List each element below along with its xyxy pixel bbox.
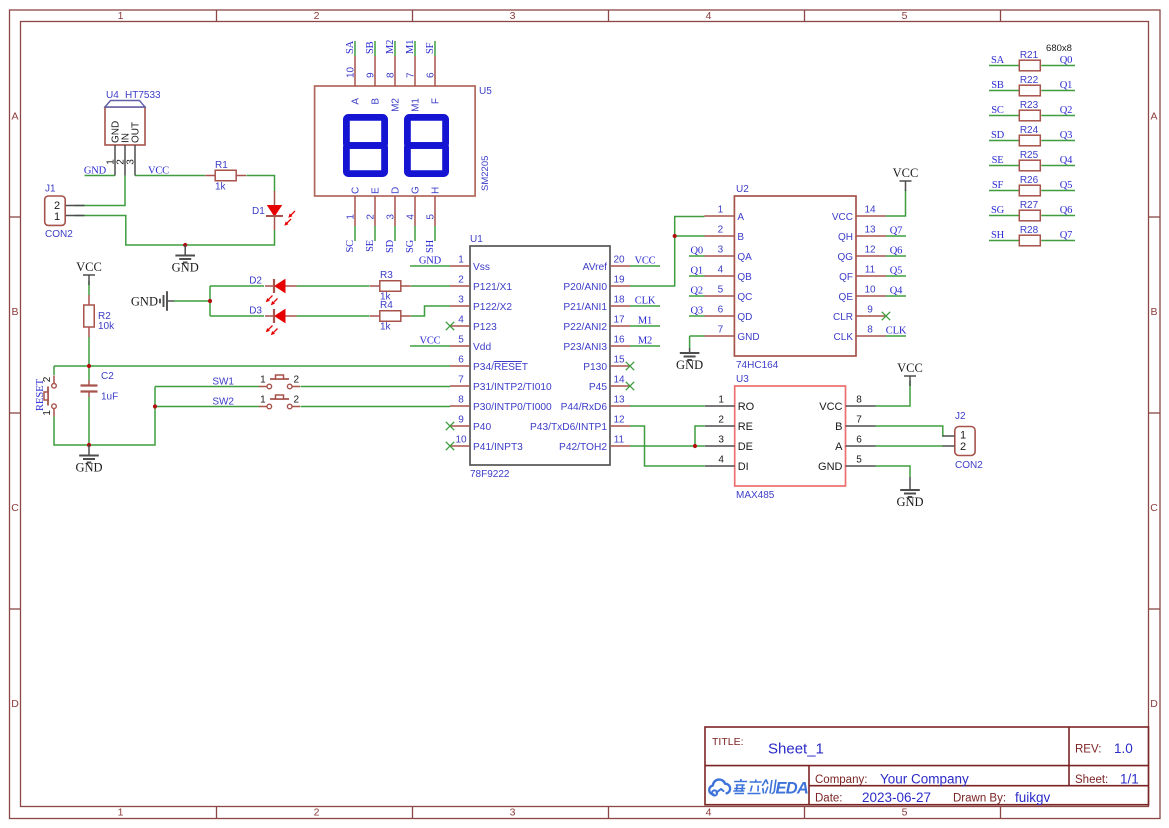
svg-text:CLK: CLK (834, 332, 854, 343)
svg-text:2: 2 (718, 225, 724, 236)
svg-text:SH: SH (991, 230, 1005, 241)
svg-text:Q0: Q0 (691, 246, 703, 257)
svg-text:1: 1 (345, 214, 356, 220)
svg-text:GND: GND (131, 295, 158, 309)
svg-text:SC: SC (991, 105, 1004, 116)
svg-text:E: E (371, 187, 382, 194)
svg-text:U1: U1 (470, 234, 483, 245)
svg-text:HT7533: HT7533 (125, 90, 161, 101)
svg-text:Q6: Q6 (1060, 205, 1072, 216)
svg-text:1: 1 (54, 211, 60, 223)
svg-text:EDA: EDA (776, 780, 808, 798)
svg-text:A: A (11, 111, 18, 123)
svg-text:5: 5 (458, 335, 464, 346)
svg-text:DE: DE (738, 441, 753, 453)
svg-text:3: 3 (126, 159, 137, 165)
svg-text:B: B (11, 306, 18, 318)
svg-text:10: 10 (455, 435, 467, 446)
svg-text:Sheet_1: Sheet_1 (768, 741, 824, 758)
svg-text:74HC164: 74HC164 (736, 360, 779, 371)
svg-text:Q6: Q6 (890, 246, 902, 257)
svg-text:SB: SB (365, 41, 376, 54)
svg-text:GND: GND (676, 358, 703, 372)
svg-text:CLR: CLR (833, 312, 853, 323)
svg-text:P31/INTP2/TI010: P31/INTP2/TI010 (473, 382, 552, 393)
svg-text:SW2: SW2 (212, 397, 234, 408)
svg-text:R1: R1 (215, 160, 228, 171)
svg-text:G: G (411, 186, 422, 194)
svg-text:RESET: RESET (35, 378, 46, 411)
svg-text:Your Company: Your Company (880, 772, 969, 787)
svg-text:1: 1 (960, 430, 966, 442)
svg-text:R23: R23 (1020, 100, 1039, 111)
svg-text:5: 5 (902, 10, 908, 22)
svg-text:5: 5 (425, 214, 436, 220)
svg-text:M1: M1 (638, 316, 652, 327)
svg-text:D3: D3 (249, 306, 262, 317)
svg-text:R26: R26 (1020, 175, 1039, 186)
svg-text:2: 2 (960, 441, 966, 453)
svg-text:M2: M2 (391, 98, 402, 112)
svg-text:SF: SF (992, 180, 1004, 191)
svg-text:SM2205: SM2205 (480, 156, 491, 191)
svg-text:C: C (1150, 502, 1158, 514)
svg-text:2023-06-27: 2023-06-27 (862, 790, 931, 805)
svg-text:Q7: Q7 (890, 226, 902, 237)
svg-text:13: 13 (613, 395, 625, 406)
svg-text:P30/INTP0/TI000: P30/INTP0/TI000 (473, 402, 552, 413)
svg-text:1: 1 (260, 394, 266, 405)
svg-text:M2: M2 (638, 336, 652, 347)
svg-text:10: 10 (864, 285, 876, 296)
svg-text:3: 3 (385, 214, 396, 220)
svg-text:Company:: Company: (815, 774, 867, 786)
svg-text:3: 3 (510, 10, 516, 22)
svg-text:Q5: Q5 (890, 266, 902, 277)
svg-text:1: 1 (718, 395, 724, 406)
svg-text:U4: U4 (106, 90, 119, 101)
svg-text:2: 2 (314, 10, 320, 22)
svg-text:QG: QG (837, 252, 853, 263)
svg-text:C2: C2 (101, 371, 114, 382)
svg-text:7: 7 (718, 325, 724, 336)
svg-text:P44/RxD6: P44/RxD6 (561, 402, 608, 413)
svg-text:P42/TOH2: P42/TOH2 (559, 442, 607, 453)
svg-text:1uF: 1uF (101, 392, 118, 403)
svg-text:A: A (1150, 111, 1157, 123)
svg-text:QH: QH (838, 232, 853, 243)
svg-text:14: 14 (864, 205, 876, 216)
svg-text:VCC: VCC (76, 260, 102, 274)
svg-text:CLK: CLK (635, 296, 656, 307)
svg-text:SW1: SW1 (212, 377, 234, 388)
svg-text:3: 3 (510, 807, 516, 819)
svg-text:4: 4 (718, 455, 724, 466)
svg-text:SG: SG (991, 205, 1005, 216)
svg-text:P121/X1: P121/X1 (473, 282, 512, 293)
svg-text:8: 8 (458, 395, 464, 406)
svg-text:6: 6 (458, 355, 464, 366)
svg-text:4: 4 (706, 807, 712, 819)
svg-text:P45: P45 (589, 382, 607, 393)
svg-text:R25: R25 (1020, 150, 1039, 161)
svg-text:D: D (1150, 698, 1158, 710)
svg-text:GND: GND (84, 166, 107, 177)
svg-text:P20/ANI0: P20/ANI0 (563, 282, 607, 293)
svg-text:H: H (431, 187, 442, 194)
svg-text:Date:: Date: (815, 793, 843, 805)
svg-text:13: 13 (864, 225, 876, 236)
svg-text:Q4: Q4 (1060, 155, 1073, 166)
svg-text:QB: QB (737, 272, 752, 283)
svg-text:B: B (737, 232, 744, 243)
svg-text:1k: 1k (380, 322, 392, 333)
svg-text:Q5: Q5 (1060, 180, 1072, 191)
svg-text:SE: SE (365, 240, 376, 252)
svg-text:P23/ANI3: P23/ANI3 (563, 342, 607, 353)
svg-text:3: 3 (718, 245, 724, 256)
svg-text:11: 11 (865, 265, 876, 276)
svg-text:Vdd: Vdd (473, 342, 491, 353)
svg-text:SA: SA (345, 40, 356, 54)
svg-text:Q3: Q3 (1060, 130, 1072, 141)
svg-text:SC: SC (345, 240, 356, 253)
svg-text:R27: R27 (1020, 200, 1039, 211)
svg-text:SF: SF (425, 42, 436, 54)
svg-text:2: 2 (294, 374, 300, 385)
svg-text:VCC: VCC (420, 336, 441, 347)
svg-text:Vss: Vss (473, 262, 490, 273)
svg-text:1k: 1k (215, 182, 227, 193)
svg-text:Q0: Q0 (1060, 55, 1072, 66)
svg-text:VCC: VCC (148, 166, 169, 177)
svg-text:9: 9 (365, 72, 376, 78)
svg-text:RO: RO (738, 401, 755, 413)
svg-text:20: 20 (613, 255, 625, 266)
svg-text:P21/ANI1: P21/ANI1 (563, 302, 607, 313)
svg-text:D1: D1 (252, 206, 265, 217)
svg-text:2: 2 (718, 415, 724, 426)
svg-text:12: 12 (613, 415, 625, 426)
svg-text:7: 7 (856, 415, 862, 426)
svg-text:GND: GND (896, 495, 923, 509)
svg-text:GND: GND (75, 461, 102, 475)
svg-text:fuikgv: fuikgv (1015, 790, 1051, 805)
svg-text:10k: 10k (98, 321, 115, 332)
svg-text:Q3: Q3 (691, 306, 703, 317)
svg-text:VCC: VCC (893, 166, 919, 180)
svg-text:1: 1 (260, 374, 266, 385)
svg-text:P130: P130 (583, 362, 607, 373)
svg-text:U3: U3 (736, 374, 749, 385)
svg-text:16: 16 (613, 335, 625, 346)
svg-text:CON2: CON2 (955, 460, 983, 471)
svg-text:GND: GND (172, 261, 199, 275)
svg-text:P41/INPT3: P41/INPT3 (473, 442, 523, 453)
svg-text:1: 1 (118, 807, 124, 819)
svg-text:Q1: Q1 (691, 266, 703, 277)
svg-text:F: F (431, 98, 442, 104)
svg-text:QF: QF (839, 272, 853, 283)
svg-text:19: 19 (613, 275, 625, 286)
svg-text:3: 3 (458, 295, 464, 306)
svg-text:SD: SD (385, 239, 396, 253)
svg-text:15: 15 (613, 355, 625, 366)
svg-text:GND: GND (737, 332, 759, 343)
svg-text:11: 11 (614, 435, 625, 446)
svg-text:J1: J1 (45, 184, 56, 195)
svg-text:Q7: Q7 (1060, 230, 1072, 241)
svg-text:A: A (835, 441, 843, 453)
svg-text:Q2: Q2 (1060, 105, 1072, 116)
svg-text:Q2: Q2 (691, 286, 703, 297)
svg-text:6: 6 (718, 305, 724, 316)
svg-text:QC: QC (737, 292, 752, 303)
svg-text:8: 8 (385, 72, 396, 78)
svg-text:5: 5 (718, 285, 724, 296)
svg-text:D: D (391, 187, 402, 194)
svg-text:QE: QE (839, 292, 854, 303)
svg-text:VCC: VCC (832, 212, 853, 223)
svg-text:P40: P40 (473, 422, 491, 433)
svg-text:Drawn By:: Drawn By: (953, 793, 1006, 805)
svg-text:17: 17 (613, 315, 625, 326)
svg-text:SE: SE (992, 155, 1004, 166)
svg-text:TITLE:: TITLE: (712, 736, 744, 748)
svg-text:1/1: 1/1 (1120, 772, 1139, 787)
svg-text:SA: SA (991, 55, 1005, 66)
svg-text:1: 1 (458, 255, 464, 266)
svg-text:2: 2 (314, 807, 320, 819)
svg-text:4: 4 (718, 265, 724, 276)
svg-text:DI: DI (738, 461, 749, 473)
svg-text:4: 4 (458, 315, 464, 326)
svg-text:18: 18 (613, 295, 625, 306)
svg-text:U2: U2 (736, 184, 749, 195)
svg-text:GND: GND (419, 256, 442, 267)
svg-text:CON2: CON2 (45, 229, 73, 240)
svg-text:REV:: REV: (1075, 744, 1101, 756)
svg-text:12: 12 (864, 245, 876, 256)
svg-text:6: 6 (425, 72, 436, 78)
svg-text:VCC: VCC (635, 256, 656, 267)
svg-text:P34/RESET: P34/RESET (473, 362, 528, 373)
svg-text:M2: M2 (385, 40, 396, 54)
svg-text:R24: R24 (1020, 125, 1039, 136)
svg-text:C: C (11, 502, 19, 514)
svg-text:5: 5 (902, 807, 908, 819)
svg-text:R22: R22 (1020, 75, 1039, 86)
svg-text:3: 3 (718, 435, 724, 446)
svg-text:VCC: VCC (897, 361, 923, 375)
svg-text:6: 6 (856, 435, 862, 446)
svg-text:RE: RE (738, 421, 753, 433)
svg-text:B: B (371, 98, 382, 105)
svg-text:7: 7 (405, 72, 416, 78)
svg-text:MAX485: MAX485 (736, 490, 775, 501)
svg-text:P22/ANI2: P22/ANI2 (563, 322, 607, 333)
svg-text:B: B (1150, 306, 1157, 318)
svg-text:Sheet:: Sheet: (1075, 774, 1108, 786)
svg-text:SB: SB (991, 80, 1004, 91)
svg-text:R4: R4 (380, 300, 393, 311)
svg-text:M1: M1 (405, 40, 416, 54)
svg-text:Q4: Q4 (890, 286, 903, 297)
svg-text:9: 9 (867, 305, 873, 316)
svg-text:1.0: 1.0 (1114, 741, 1133, 756)
svg-text:B: B (835, 421, 842, 433)
svg-text:CLK: CLK (886, 326, 907, 337)
svg-text:4: 4 (405, 214, 416, 220)
svg-text:Q1: Q1 (1060, 80, 1072, 91)
svg-text:U5: U5 (479, 86, 492, 97)
svg-text:M1: M1 (411, 98, 422, 112)
svg-text:QD: QD (737, 312, 752, 323)
svg-text:A: A (737, 212, 744, 223)
svg-text:P122/X2: P122/X2 (473, 302, 512, 313)
svg-text:8: 8 (867, 325, 873, 336)
svg-text:2: 2 (294, 394, 300, 405)
svg-text:2: 2 (365, 214, 376, 220)
svg-text:SH: SH (425, 239, 436, 253)
svg-text:4: 4 (706, 10, 712, 22)
svg-text:8: 8 (856, 395, 862, 406)
svg-text:14: 14 (613, 375, 625, 386)
svg-text:OUT: OUT (131, 122, 142, 143)
svg-text:J2: J2 (955, 411, 966, 422)
svg-text:1: 1 (718, 205, 724, 216)
svg-text:9: 9 (458, 415, 464, 426)
svg-text:SG: SG (405, 239, 416, 253)
svg-text:680x8: 680x8 (1046, 43, 1072, 54)
svg-text:C: C (351, 187, 362, 194)
svg-text:P43/TxD6/INTP1: P43/TxD6/INTP1 (530, 422, 607, 433)
svg-text:SD: SD (991, 130, 1005, 141)
svg-text:D2: D2 (249, 276, 262, 287)
svg-text:R28: R28 (1020, 225, 1039, 236)
svg-text:P123: P123 (473, 322, 497, 333)
svg-text:5: 5 (856, 455, 862, 466)
svg-text:GND: GND (818, 461, 843, 473)
svg-text:A: A (351, 98, 362, 105)
svg-text:R3: R3 (380, 270, 393, 281)
svg-text:AVref: AVref (583, 262, 608, 273)
svg-text:2: 2 (458, 275, 464, 286)
svg-text:R21: R21 (1020, 50, 1039, 61)
svg-text:10: 10 (345, 66, 356, 78)
svg-text:QA: QA (737, 252, 752, 263)
svg-text:7: 7 (458, 375, 464, 386)
svg-text:VCC: VCC (819, 401, 842, 413)
svg-text:D: D (11, 698, 19, 710)
svg-text:78F9222: 78F9222 (470, 469, 510, 480)
svg-text:1: 1 (118, 10, 124, 22)
